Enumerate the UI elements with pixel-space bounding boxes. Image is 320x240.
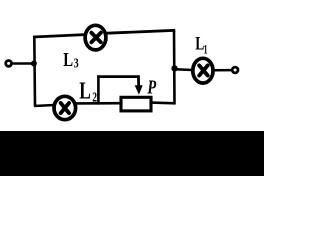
terminal (left, open circle) (6, 61, 12, 67)
wire: lamp L1 right lead (214, 69, 232, 72)
wire: bottom branch, rheostat to right vertical (151, 101, 175, 104)
svg-text:L: L (195, 32, 204, 54)
wire: wiper loop horizontal (97, 75, 139, 78)
node: right junction dot (171, 65, 177, 71)
rheostat P (box) (121, 97, 151, 111)
lamp L1 (circle) (193, 58, 213, 83)
wire: wiper loop vertical (left) (97, 75, 100, 104)
wire: wiper arrow shaft (137, 75, 140, 87)
lamp L2 (X filament) (61, 103, 69, 113)
wiper arrowhead (135, 85, 143, 95)
wire: bottom branch, lamp L2 to rheostat (75, 102, 120, 105)
wire: left vertical branch (33, 36, 36, 106)
label L1 (195, 32, 207, 57)
wire: left terminal lead (12, 62, 35, 64)
svg-text:3: 3 (74, 55, 79, 71)
node: left junction dot (31, 61, 37, 67)
lamp L2 (circle) (54, 96, 76, 119)
wire: bottom branch, left of lamp L2 (34, 105, 55, 106)
svg-text:P: P (147, 75, 157, 98)
lamp L3 (X filament) (91, 33, 100, 43)
wire: lamp L1 left lead (175, 68, 193, 71)
label L3 (63, 48, 79, 71)
wire: top branch, right of lamp L3 (107, 30, 175, 33)
svg-text:L: L (63, 48, 73, 71)
svg-text:1: 1 (204, 43, 208, 58)
wire: right vertical branch (173, 30, 176, 104)
lamp L1 (X filament) (199, 65, 208, 75)
wire: top branch, left of lamp L3 (33, 35, 84, 37)
terminal (right, open circle) (232, 67, 238, 73)
svg-text:2: 2 (92, 89, 97, 105)
label L2 (79, 77, 97, 105)
lamp L3 (circle) (85, 25, 106, 50)
black band (bottom) (0, 131, 264, 176)
svg-text:L: L (79, 77, 91, 105)
